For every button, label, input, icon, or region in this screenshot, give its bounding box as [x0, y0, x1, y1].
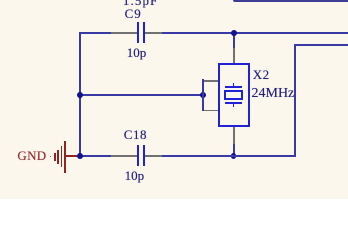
label 24MHz: [252, 87, 295, 101]
C18 plate right: [143, 145, 145, 166]
crystal X2 left pin bracket vertical wire: [202, 79, 204, 111]
X2 glyph bottom plate: [225, 102, 242, 104]
X2 pin 1 lead: [204, 80, 218, 82]
GND bar 3: [61, 146, 63, 167]
X2 glyph bottom stub: [233, 104, 235, 108]
GND pin dot: [50, 156, 52, 158]
C9 plate left: [137, 22, 139, 43]
wire bottom horizontal right segment: [162, 155, 296, 157]
junction node left-middle: [77, 92, 83, 98]
GND bar 1: [54, 153, 56, 161]
wire left vertical: [79, 32, 81, 157]
X2 bottom pin lead: [233, 127, 235, 144]
junction node GND / bottom wire: [77, 153, 83, 159]
bus segment top right: [233, 0, 348, 2]
junction node at crystal left: [200, 92, 206, 98]
crystal X2 body box: [218, 63, 250, 127]
label 1.5pF: [123, 0, 158, 7]
X2 pin 2 lead: [204, 110, 218, 112]
label C18: [124, 128, 147, 141]
X2 glyph top plate: [225, 86, 242, 88]
GND bar 4: [64, 141, 66, 174]
GND bar 2: [57, 150, 59, 164]
label 10p of C18: [125, 169, 145, 182]
label GND: [17, 149, 46, 162]
C18 pin right lead: [145, 155, 162, 157]
junction node top wire / crystal: [231, 30, 237, 36]
C18 plate left: [137, 145, 139, 166]
label C9: [125, 7, 142, 20]
wire top right horizontal: [294, 44, 348, 46]
junction node bottom wire / crystal: [231, 153, 237, 159]
X2 top pin lead: [233, 48, 235, 64]
wire middle horizontal: [79, 94, 204, 96]
wire top horizontal left segment: [79, 32, 112, 34]
C9 plate right: [143, 22, 145, 43]
wire right vertical: [294, 44, 296, 158]
label 10p of C9: [127, 46, 147, 59]
wire top horizontal right segment: [162, 32, 348, 34]
C9 pin right lead: [145, 32, 162, 34]
wire stub above crystal: [233, 33, 235, 48]
C18 pin left lead: [111, 155, 137, 157]
GND stem: [66, 155, 78, 157]
label X2: [253, 68, 270, 81]
wire bottom horizontal left segment: [79, 155, 112, 157]
X2 glyph top stub: [233, 83, 235, 87]
X2 crystal glyph rectangle: [224, 90, 243, 100]
C9 pin left lead: [111, 32, 137, 34]
wire stub below crystal: [233, 144, 235, 156]
